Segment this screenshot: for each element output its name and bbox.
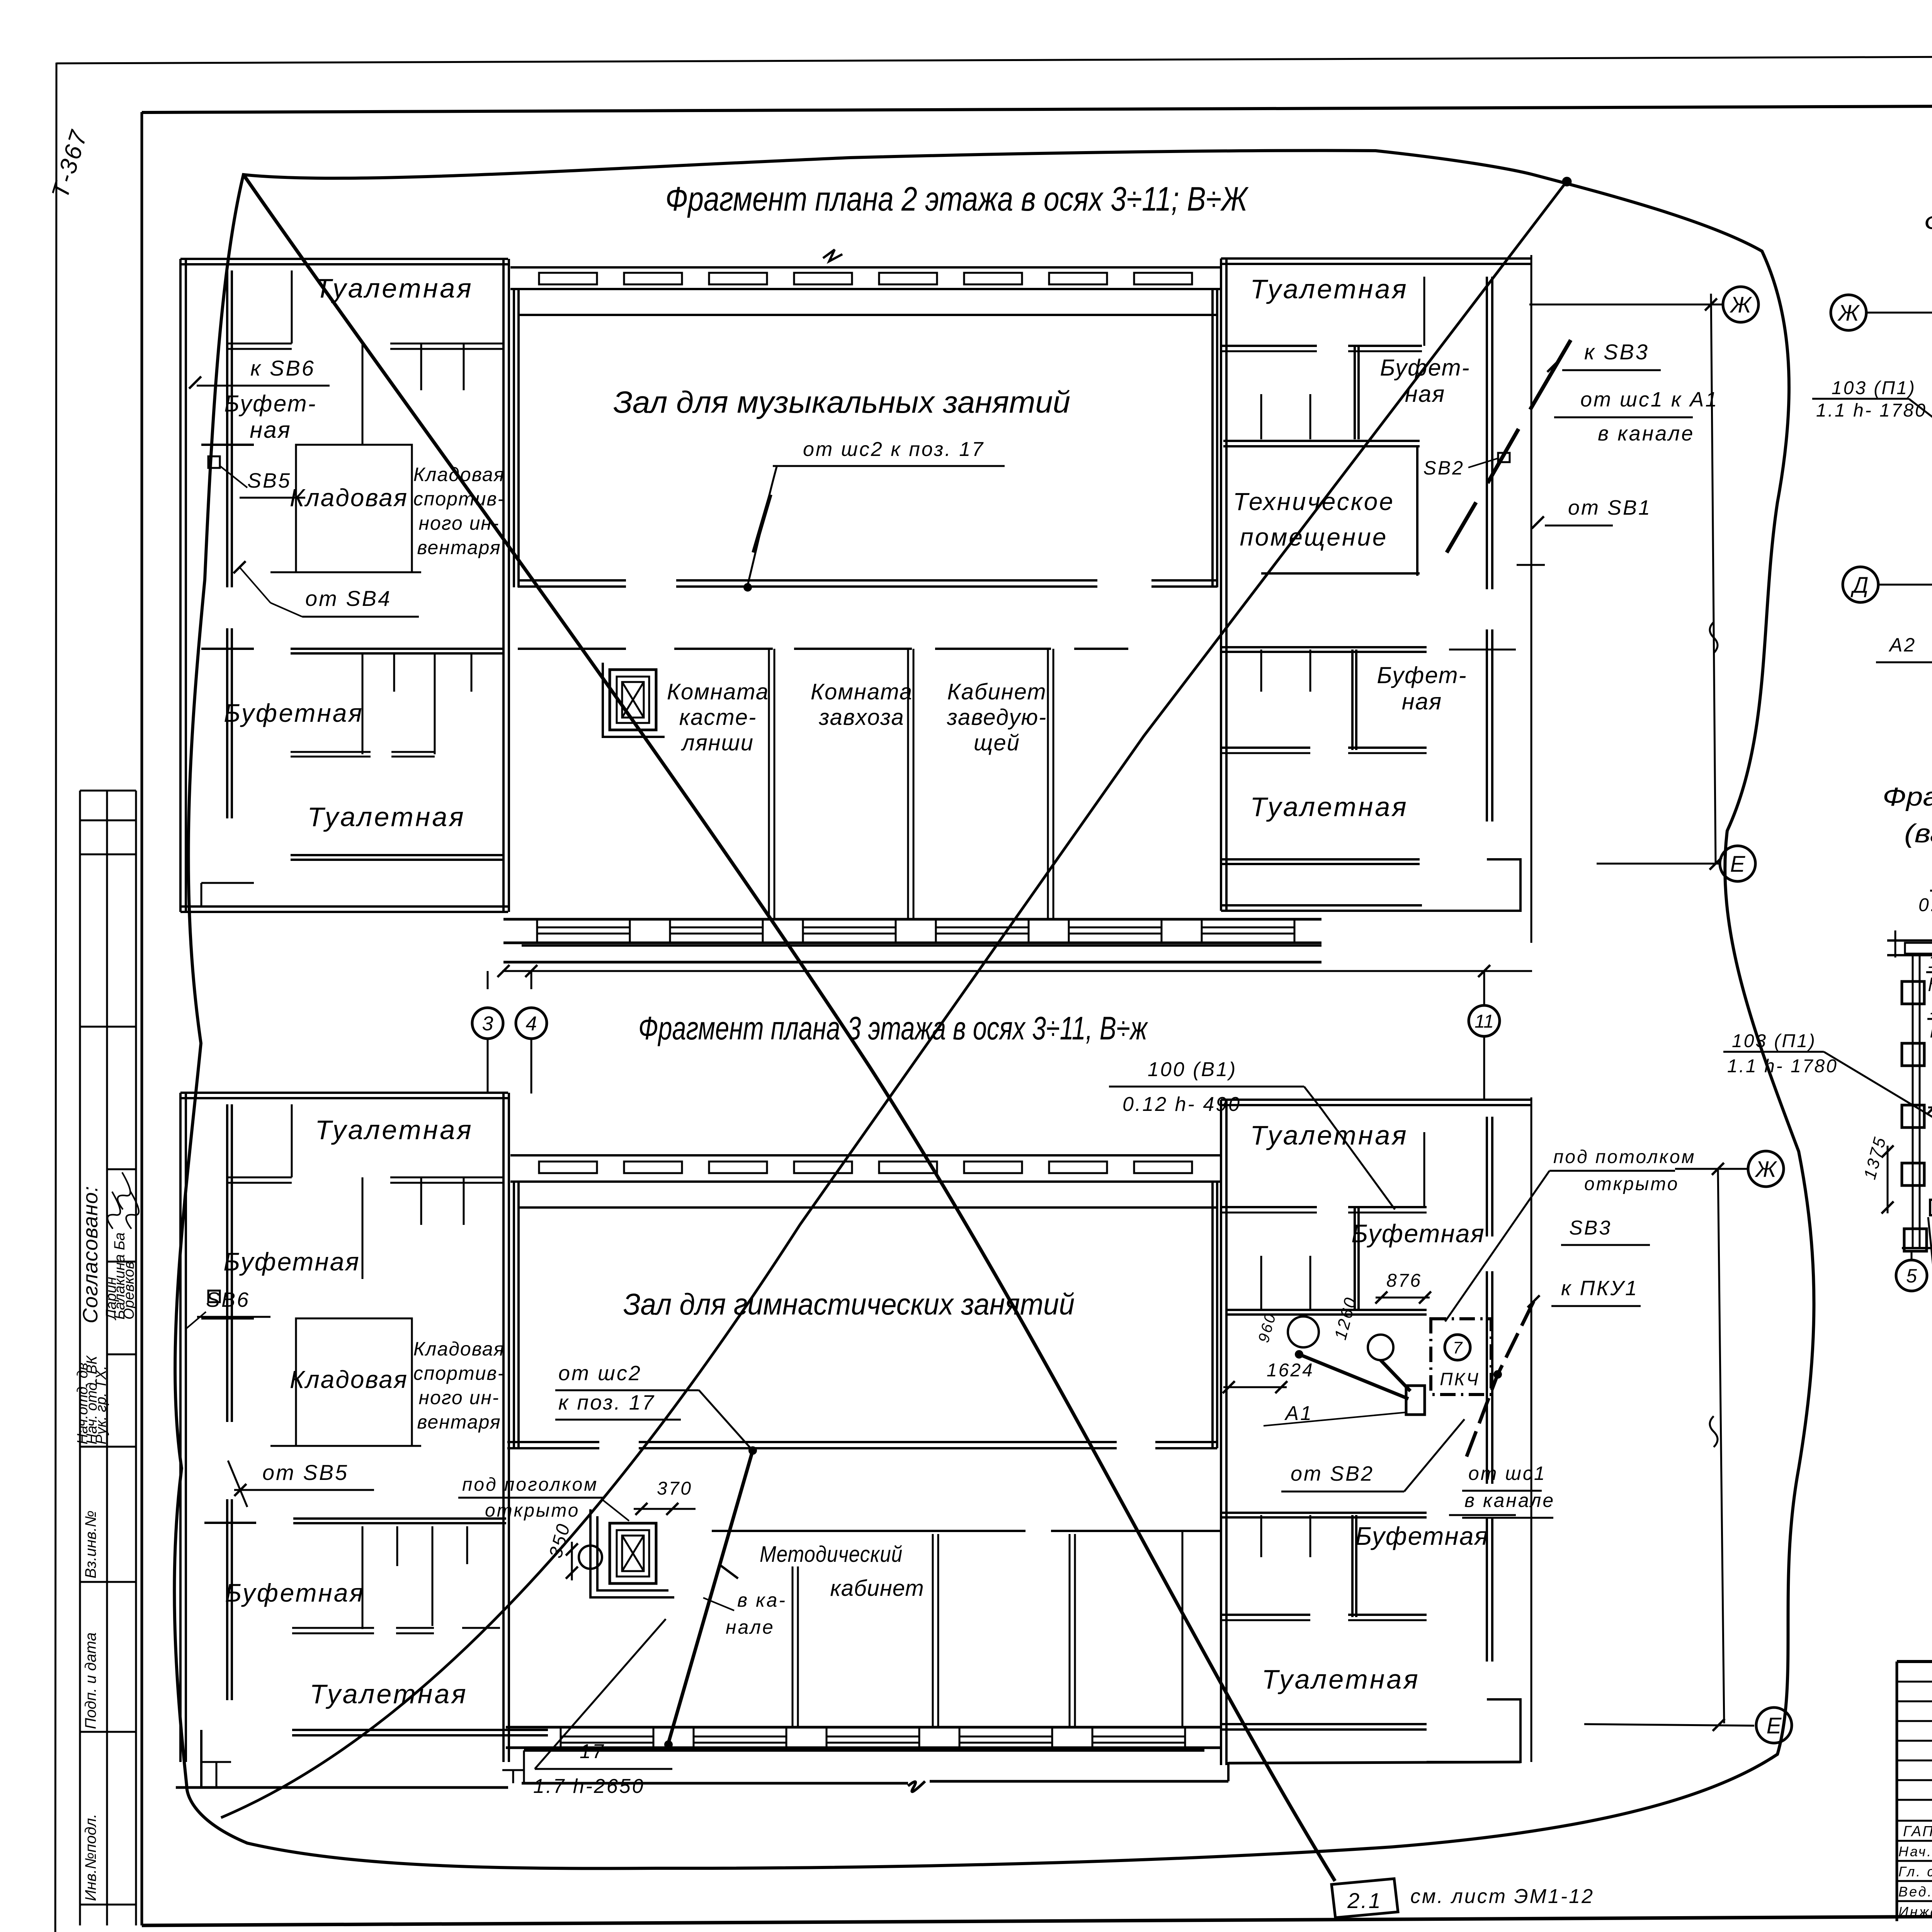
svg-text:вентаря: вентаря bbox=[417, 1411, 501, 1433]
axis circle Е bbox=[1756, 1708, 1792, 1743]
svg-text:Фрагмент плана техподполья в о: Фрагмент плана техподполья в осях 5÷6,Д÷… bbox=[1924, 208, 1932, 238]
svg-text:Комната: Комната bbox=[811, 679, 913, 704]
main title block outline bbox=[1897, 1660, 1932, 1663]
svg-text:370: 370 bbox=[657, 1478, 692, 1499]
svg-text:от шс2: от шс2 bbox=[558, 1362, 642, 1385]
svg-text:от SB4: от SB4 bbox=[305, 586, 391, 611]
axis circle 7 bbox=[1445, 1335, 1470, 1360]
axis circles right of lower plan bbox=[1675, 1168, 1747, 1170]
svg-text:1.1 h- 1780: 1.1 h- 1780 bbox=[1727, 1056, 1838, 1077]
svg-text:Вз.инв.№: Вз.инв.№ bbox=[82, 1510, 99, 1578]
svg-text:ПКЧ: ПКЧ bbox=[1440, 1369, 1480, 1389]
axis circle Ж bbox=[1723, 287, 1759, 322]
right thin boundary lower plan bbox=[1531, 1097, 1532, 1762]
lamp by elevator bbox=[579, 1546, 602, 1569]
leader to pos 17 bbox=[747, 467, 777, 587]
room Техническое помещение walls bbox=[1223, 440, 1420, 442]
leader 100(B1) bbox=[1304, 1087, 1395, 1209]
axis circle Ж bbox=[1831, 295, 1866, 330]
room Кладовая walls lower bbox=[296, 1318, 412, 1446]
axis circle 3 bbox=[472, 1008, 503, 1039]
lower plan left wing partitions bbox=[226, 1104, 228, 1422]
hall walls bbox=[518, 314, 1217, 316]
elevator shaft lower plan bbox=[610, 1523, 656, 1583]
svg-text:Туалетная: Туалетная bbox=[315, 273, 473, 303]
svg-text:SB2: SB2 bbox=[1423, 457, 1464, 479]
svg-text:103 (П1): 103 (П1) bbox=[1832, 378, 1916, 398]
axis circle Д bbox=[1843, 567, 1878, 602]
svg-text:спортив-: спортив- bbox=[413, 1362, 505, 1384]
svg-text:7: 7 bbox=[1453, 1338, 1463, 1357]
wire к ПКУ1 heavy bbox=[1466, 1301, 1534, 1457]
svg-text:ного ин-: ного ин- bbox=[418, 512, 499, 534]
upper plan left wing outer walls bbox=[180, 258, 508, 260]
hall bottom wall bbox=[518, 579, 626, 582]
bottom outer line lower plan bbox=[522, 1782, 908, 1785]
svg-text:Туалетная: Туалетная bbox=[310, 1679, 468, 1709]
svg-text:открыто: открыто bbox=[485, 1500, 580, 1521]
svg-text:Фрагмент плана техподполья в: Фрагмент плана техподполья в осях 5÷7, Д… bbox=[1883, 782, 1932, 811]
svg-text:Кладовая: Кладовая bbox=[290, 484, 408, 512]
inner frame bottom bbox=[142, 1913, 1932, 1925]
svg-text:Подп. и дата: Подп. и дата bbox=[82, 1633, 99, 1729]
svg-text:Оревков: Оревков bbox=[121, 1261, 137, 1320]
svg-text:Фрагмент плана 2 этажа в осях: Фрагмент плана 2 этажа в осях 3÷11; В÷Ж bbox=[665, 180, 1249, 218]
svg-text:к поз. 17: к поз. 17 bbox=[558, 1391, 655, 1414]
svg-text:А2: А2 bbox=[1888, 634, 1916, 656]
right wing outer thin line bbox=[1531, 255, 1532, 943]
room Методический кабинет bbox=[712, 1530, 1026, 1532]
room Комната завхоза walls bbox=[794, 648, 912, 650]
svg-text:Ж: Ж bbox=[1754, 1157, 1777, 1182]
wire к SB3 heavy dashed bbox=[1447, 340, 1571, 553]
panel PK4 dash-dot square bbox=[1431, 1319, 1491, 1395]
svg-text:SB5: SB5 bbox=[247, 469, 291, 492]
upper plan hall window band top bbox=[510, 266, 1221, 269]
svg-text:к SB3: к SB3 bbox=[1584, 340, 1649, 364]
svg-text:5: 5 bbox=[1906, 1265, 1917, 1287]
svg-text:Кабинет: Кабинет bbox=[947, 679, 1046, 704]
fragment2 bottom line bbox=[1902, 1247, 1932, 1249]
svg-text:см. лист ЭМ1-12: см. лист ЭМ1-12 bbox=[1410, 1885, 1594, 1908]
svg-text:от шс1 к А1: от шс1 к А1 bbox=[1580, 388, 1718, 411]
svg-text:Фрагмент плана 3 этажа в осях: Фрагмент плана 3 этажа в осях 3÷11, В÷ж bbox=[638, 1010, 1148, 1046]
svg-text:Зал для музыкальных занятий: Зал для музыкальных занятий bbox=[613, 385, 1070, 419]
switch SB5 bbox=[208, 456, 220, 468]
svg-text:100 (В1): 100 (В1) bbox=[1148, 1058, 1237, 1081]
room Комната кастелянши walls bbox=[674, 648, 773, 650]
svg-text:кабинет: кабинет bbox=[830, 1576, 924, 1601]
room Кладовая walls bbox=[296, 445, 412, 572]
svg-text:вентаря: вентаря bbox=[417, 537, 501, 558]
svg-text:h- 1000: h- 1000 bbox=[1930, 1021, 1932, 1042]
svg-text:Ж: Ж bbox=[1729, 293, 1752, 318]
svg-text:Д: Д bbox=[1850, 573, 1869, 598]
svg-text:щей: щей bbox=[974, 730, 1020, 755]
svg-text:Буфетная: Буфетная bbox=[1355, 1522, 1489, 1550]
inner frame left bbox=[141, 112, 143, 1925]
svg-text:ного ин-: ного ин- bbox=[418, 1387, 499, 1408]
right wing corridor walls bbox=[1221, 646, 1427, 648]
svg-text:1.7 h-2650: 1.7 h-2650 bbox=[533, 1775, 645, 1798]
svg-text:Рук. гр. ТХ.: Рук. гр. ТХ. bbox=[93, 1366, 109, 1444]
svg-text:завхоза: завхоза bbox=[818, 705, 904, 730]
svg-text:Буфетная: Буфетная bbox=[224, 699, 364, 727]
svg-text:SB6: SB6 bbox=[206, 1288, 250, 1311]
leader 17 to elevator bbox=[535, 1619, 666, 1769]
svg-text:спортив-: спортив- bbox=[413, 488, 505, 510]
svg-text:к SB6: к SB6 bbox=[250, 356, 315, 380]
lower plan left wing outer walls bbox=[180, 1092, 508, 1094]
svg-text:Согласовано:: Согласовано: bbox=[79, 1186, 102, 1323]
svg-text:от шс1: от шс1 bbox=[1468, 1463, 1546, 1484]
freehand cloud outline bbox=[174, 151, 1814, 1869]
wire in channel diagonal bbox=[668, 1451, 753, 1743]
axis circle 5 bbox=[1896, 1260, 1927, 1291]
svg-text:ная: ная bbox=[1405, 381, 1445, 407]
inner frame top bbox=[142, 104, 1932, 112]
svg-text:876: 876 bbox=[1386, 1270, 1422, 1291]
sheet edge top bbox=[56, 54, 1932, 63]
svg-text:Буфет-: Буфет- bbox=[1377, 662, 1467, 688]
corridor lower wall upper plan bbox=[518, 648, 626, 650]
svg-text:Инжен.: Инжен. bbox=[1898, 1904, 1932, 1920]
upper plan left wing partitions bbox=[226, 270, 228, 587]
svg-text:103 SK: 103 SK bbox=[1928, 952, 1932, 972]
svg-text:касте-: касте- bbox=[679, 705, 757, 730]
svg-text:Буфетная: Буфетная bbox=[225, 1578, 365, 1607]
svg-text:2.1: 2.1 bbox=[1347, 1888, 1382, 1913]
svg-text:Зал для гимнастических занятий: Зал для гимнастических занятий bbox=[623, 1287, 1075, 1321]
svg-text:нале: нале bbox=[726, 1616, 775, 1638]
axis circle 11 bbox=[1469, 1005, 1500, 1036]
elevator shaft bbox=[610, 670, 656, 730]
stamp signature scribble bbox=[107, 1192, 120, 1229]
wire at pos 17 bbox=[753, 495, 770, 553]
sheet edge left bbox=[55, 63, 56, 1932]
axis circle 4 bbox=[516, 1008, 547, 1039]
dimension line below upper plan bbox=[502, 970, 1532, 972]
svg-text:3: 3 bbox=[482, 1013, 493, 1035]
svg-text:Буфетная: Буфетная bbox=[1351, 1219, 1485, 1248]
svg-text:4: 4 bbox=[526, 1013, 537, 1035]
svg-text:Буфет-: Буфет- bbox=[1380, 355, 1470, 381]
hall inner top wall lower bbox=[518, 1206, 1217, 1209]
switch SB6 box bbox=[208, 1291, 220, 1302]
svg-text:от SB5: от SB5 bbox=[262, 1460, 349, 1485]
svg-text:Туалетная: Туалетная bbox=[1250, 274, 1408, 304]
lower plan hall window band top bbox=[510, 1154, 1221, 1156]
lower plan bottom window band bbox=[506, 1726, 1221, 1729]
fragment2 walls bbox=[1887, 939, 1932, 942]
leader from label bbox=[699, 1390, 753, 1451]
svg-text:в ка-: в ка- bbox=[737, 1589, 787, 1611]
svg-text:лянши: лянши bbox=[681, 730, 754, 755]
room with lamps (buffet) lower right bbox=[1225, 1309, 1427, 1311]
svg-text:h- 1600: h- 1600 bbox=[1928, 975, 1932, 995]
svg-text:Комната: Комната bbox=[667, 679, 769, 704]
svg-text:Инв.№подл.: Инв.№подл. bbox=[82, 1814, 99, 1901]
svg-text:ГАП: ГАП bbox=[1903, 1823, 1932, 1840]
svg-text:Гл. спец.: Гл. спец. bbox=[1898, 1864, 1932, 1879]
svg-text:SB3: SB3 bbox=[1569, 1217, 1612, 1239]
svg-text:103 (П1): 103 (П1) bbox=[1732, 1031, 1816, 1051]
left stamp column bbox=[80, 790, 136, 792]
svg-text:Туалетная: Туалетная bbox=[307, 802, 465, 832]
corridor lower right wing bbox=[1221, 1512, 1427, 1514]
switch SB2 bbox=[1498, 453, 1510, 462]
fragment2 pile columns bbox=[1912, 955, 1914, 1248]
long diagonal break line B bbox=[221, 181, 1567, 1818]
axis dimension lines right of upper plan bbox=[1529, 304, 1723, 306]
svg-text:1624: 1624 bbox=[1267, 1360, 1314, 1381]
bottom protrusion line lower plan bbox=[524, 1749, 1204, 1752]
break mark bottom bbox=[908, 1781, 925, 1792]
svg-text:Техническое: Техническое bbox=[1233, 488, 1395, 515]
wires to A1 bbox=[1299, 1354, 1410, 1399]
right wing partitions bbox=[1221, 345, 1317, 347]
svg-text:Нач. ЭТО: Нач. ЭТО bbox=[1898, 1844, 1932, 1859]
svg-text:от SB2: от SB2 bbox=[1291, 1462, 1374, 1485]
svg-text:Е: Е bbox=[1767, 1713, 1782, 1738]
axis circle Ж bbox=[1748, 1151, 1784, 1187]
svg-text:Вед. инж.: Вед. инж. bbox=[1898, 1884, 1932, 1900]
svg-text:от шс2 к поз. 17: от шс2 к поз. 17 bbox=[803, 438, 985, 461]
svg-text:Туалетная: Туалетная bbox=[1250, 1120, 1408, 1150]
svg-text:Буфет-: Буфет- bbox=[224, 391, 316, 417]
svg-text:Ж: Ж bbox=[1837, 301, 1860, 326]
svg-text:103У: 103У bbox=[1930, 998, 1932, 1019]
svg-text:Кладовая: Кладовая bbox=[413, 464, 505, 485]
svg-text:от SB1: от SB1 bbox=[1568, 496, 1651, 519]
svg-text:11: 11 bbox=[1475, 1011, 1494, 1032]
svg-text:Кладовая: Кладовая bbox=[290, 1366, 408, 1393]
revision tag 2.1 box bbox=[1332, 1879, 1398, 1918]
svg-text:под потолком: под потолком bbox=[1553, 1147, 1696, 1167]
partitions lower right wing bbox=[1221, 1206, 1317, 1208]
upper plan right wing outer walls bbox=[1221, 257, 1531, 260]
svg-text:Туалетная: Туалетная bbox=[1250, 792, 1408, 822]
svg-text:ная: ная bbox=[1402, 689, 1442, 714]
svg-text:Туалетная: Туалетная bbox=[1262, 1664, 1420, 1694]
svg-text:в канале: в канале bbox=[1598, 422, 1694, 445]
break mark top bbox=[823, 250, 842, 261]
svg-text:под поголком: под поголком bbox=[462, 1475, 598, 1495]
corridor walls left wing bbox=[201, 648, 254, 650]
long diagonal break line A bbox=[243, 175, 1335, 1881]
axis line vertical bbox=[1711, 294, 1716, 864]
svg-text:Методический: Методический bbox=[760, 1542, 903, 1567]
junction dot cloud/diagonal B bbox=[1563, 178, 1571, 185]
svg-text:ная: ная bbox=[250, 417, 291, 443]
corridor walls lower-left wing bbox=[204, 1522, 256, 1524]
svg-text:заведую-: заведую- bbox=[947, 705, 1047, 730]
fragment1 axis circles bbox=[1866, 312, 1932, 314]
svg-text:0.4h- 1400: 0.4h- 1400 bbox=[1918, 895, 1932, 915]
lamp 2 bbox=[1368, 1335, 1393, 1360]
lamp 1 bbox=[1288, 1316, 1319, 1347]
upper plan bottom window band center bbox=[503, 918, 1321, 921]
svg-text:Туалетная: Туалетная bbox=[315, 1115, 473, 1145]
svg-text:открыто: открыто bbox=[1584, 1174, 1679, 1194]
device A2 f2 bbox=[1930, 1200, 1932, 1215]
lower plan right wing outer walls bbox=[1221, 1099, 1531, 1101]
svg-text:(вариант свайного фундамента): (вариант свайного фундамента) bbox=[1904, 819, 1932, 848]
svg-text:Е: Е bbox=[1730, 852, 1746, 877]
room Кабинет заведующей walls bbox=[935, 648, 1051, 650]
svg-text:к ПКУ1: к ПКУ1 bbox=[1561, 1277, 1638, 1300]
svg-text:в канале: в канале bbox=[1464, 1490, 1555, 1511]
axis circle Е bbox=[1720, 846, 1755, 881]
break mark on axis line bbox=[1710, 622, 1718, 653]
svg-text:1.1 h- 1780: 1.1 h- 1780 bbox=[1816, 400, 1927, 421]
svg-text:помещение: помещение bbox=[1240, 523, 1388, 551]
svg-text:Кладовая: Кладовая bbox=[413, 1338, 505, 1360]
hall bottom wall lower plan bbox=[507, 1441, 599, 1443]
device A1 bbox=[1406, 1386, 1425, 1415]
svg-text:Буфетная: Буфетная bbox=[223, 1247, 360, 1276]
